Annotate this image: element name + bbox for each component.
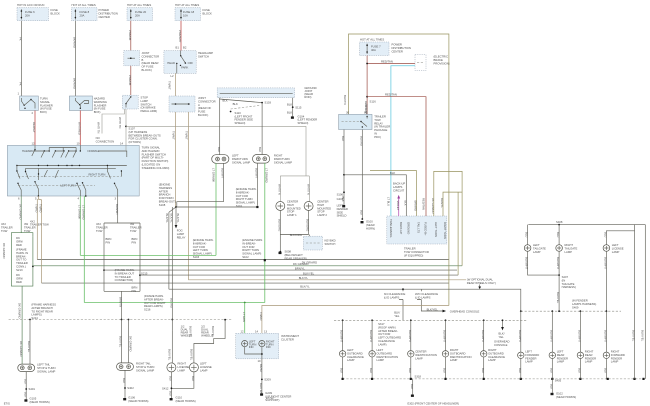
- right license lamp: [167, 363, 176, 372]
- svg-text:PIN: PIN: [132, 289, 137, 293]
- svg-text:LAMP: LAMP: [585, 360, 593, 364]
- svg-text:IDENTIFICATION: IDENTIFICATION: [415, 353, 437, 357]
- wire tap c1: [342, 320, 344, 350]
- wire tap f4: [605, 311, 607, 352]
- label G104 LEFT FENDER SHIELD: [298, 115, 318, 125]
- svg-text:SWITCH: SWITCH: [141, 102, 152, 106]
- wire left license L feed: [194, 320, 225, 363]
- node S108: [175, 206, 177, 208]
- label S008 BELOW LEFT REAR SPEAKER: [285, 250, 307, 261]
- label RIGHT OUTBOARD CLEARANCE LAMP: [488, 348, 505, 362]
- svg-text:RIGHT TURN: RIGHT TURN: [236, 197, 253, 201]
- svg-text:STOP: STOP: [287, 210, 295, 214]
- label LT GRN/BK pinlabels: [77, 205, 85, 220]
- switch internal top stubs: [49, 148, 76, 152]
- svg-text:IND: IND: [266, 345, 271, 349]
- svg-text:S107: S107: [129, 127, 136, 131]
- label BLK YEL oc2: [499, 332, 505, 339]
- svg-text:FORWARD: FORWARD: [525, 353, 539, 357]
- svg-text:FUSE 18: FUSE 18: [183, 10, 195, 14]
- svg-text:PEDAL ARM): PEDAL ARM): [141, 109, 158, 113]
- dashed frame harness line left: [9, 319, 232, 321]
- svg-text:LAMP: LAMP: [347, 358, 355, 362]
- node S412: [171, 387, 173, 389]
- svg-text:FUSE 7: FUSE 7: [371, 45, 381, 49]
- svg-text:LAMP: LAMP: [488, 358, 496, 362]
- svg-text:CLEARANCE: CLEARANCE: [347, 355, 364, 359]
- label BACK-UP LAMPS CIRCUIT: [393, 182, 405, 193]
- lamp LEFT FORWARD FENDER: [518, 352, 524, 358]
- svg-text:RELAY: RELAY: [177, 235, 186, 239]
- wire tap c5: [483, 320, 485, 350]
- wire band right BLK down to right park lamp: [261, 103, 263, 155]
- ground G106: [123, 398, 126, 400]
- svg-text:B: B: [142, 58, 144, 62]
- label RIGHT PARK TURN SIGNAL LAMP: [274, 154, 292, 165]
- wire olive perimeter top: [349, 34, 449, 306]
- svg-text:14: 14: [120, 142, 124, 146]
- wire license ground down: [605, 251, 607, 311]
- wire green cluster drop: [244, 303, 246, 334]
- svg-text:SHIELD): SHIELD): [235, 121, 246, 125]
- node oc2: [502, 319, 504, 321]
- ground joint band: [217, 88, 294, 98]
- wire green G2 horizontal to cluster: [84, 302, 264, 304]
- svg-text:BLK/: BLK/: [394, 311, 400, 315]
- power distribution center box F8: [72, 8, 98, 21]
- svg-text:TURN: TURN: [40, 97, 48, 101]
- svg-text:S409: S409: [572, 305, 579, 309]
- ground G104: [291, 116, 294, 118]
- svg-text:(ENGINE: (ENGINE: [159, 183, 171, 187]
- svg-text:KEYBKD: KEYBKD: [325, 239, 336, 243]
- label G105 NEAR HORNS: [30, 397, 50, 404]
- label G107 NEAR HORNS: [176, 396, 196, 403]
- trailer tow relay box: [339, 114, 372, 129]
- svg-text:(NEAR HORNS): (NEAR HORNS): [30, 400, 50, 404]
- label ENGINE HARN BREAK OUT RIGHT TURN b: [242, 238, 263, 259]
- svg-text:OUT FOR: OUT FOR: [236, 194, 248, 198]
- label KEYLESS SWITCH: [325, 239, 336, 246]
- lamp RIGHT OUTBOARD CLEARANCE: [481, 351, 487, 357]
- label TRAILER TOW CONNECTOR: [404, 247, 429, 258]
- svg-text:CONNECTOR: CONNECTOR: [198, 99, 216, 103]
- turn signal and hazard switch box: [7, 145, 139, 196]
- svg-text:STOP & TURN: STOP & TURN: [37, 366, 55, 370]
- svg-text:OUT TO: OUT TO: [16, 258, 26, 262]
- svg-text:LAMP: LAMP: [377, 358, 385, 362]
- svg-text:RIGHT: RIGHT: [178, 362, 187, 366]
- wire overhead console 1: [421, 301, 442, 311]
- svg-text:S116: S116: [370, 100, 377, 104]
- svg-text:CLEARANCE: CLEARANCE: [378, 339, 395, 343]
- label STOP LAMP SWITCH: [141, 96, 158, 114]
- svg-text:HOT AT ALL TIMES: HOT AT ALL TIMES: [175, 3, 199, 7]
- wire left turn riser olive: [434, 171, 462, 265]
- wire tap c2: [371, 320, 373, 350]
- label frame harn breakout right: [115, 268, 135, 282]
- wire JCA out2 TN down: [189, 112, 466, 280]
- svg-text:(NEAR HORNS): (NEAR HORNS): [556, 395, 576, 399]
- svg-text:(FRAME HARNESS: (FRAME HARNESS: [31, 303, 56, 307]
- wire S407 down BLK/YEL: [558, 275, 560, 311]
- svg-text:(REAR OF: (REAR OF: [198, 106, 211, 110]
- svg-text:PROVISION): PROVISION): [434, 61, 450, 65]
- svg-text:AFTER BREAK-: AFTER BREAK-: [378, 329, 398, 333]
- svg-text:LAMP 2: LAMP 2: [317, 213, 327, 217]
- svg-text:(ENGINE HARN.: (ENGINE HARN.: [236, 187, 257, 191]
- node S401: [25, 388, 27, 390]
- wire right bracket split: [104, 221, 140, 291]
- svg-text:AND HAZARD: AND HAZARD: [142, 149, 160, 153]
- svg-text:LAMP: LAMP: [612, 250, 620, 254]
- label FRAME HARNESS AFTER BRANCH S214: [31, 303, 56, 321]
- svg-text:(ROOF HARN.: (ROOF HARN.: [378, 325, 396, 329]
- right turn indicator: [259, 341, 265, 347]
- left license lamp right section: [603, 225, 634, 252]
- label 4x2 TRAILER TOW right: [96, 222, 108, 233]
- node S116: [366, 96, 368, 98]
- wire BLK/YEL left tail drop: [29, 320, 31, 365]
- svg-text:OUTBOARD: OUTBOARD: [488, 351, 504, 355]
- svg-text:(ON BRAKE: (ON BRAKE: [141, 106, 156, 110]
- label LEFT REAR FENDER LAMP: [557, 350, 568, 364]
- svg-text:FORWARD: FORWARD: [611, 353, 625, 357]
- label 4x2 TRAILER TOW left: [1, 222, 13, 233]
- svg-text:LEFT: LEFT: [232, 154, 239, 158]
- fender lamp group 3: [577, 311, 596, 379]
- svg-text:DISTRIBUTION: DISTRIBUTION: [99, 11, 118, 15]
- svg-text:LAMP: LAMP: [450, 358, 458, 362]
- label JOINT CONNECTOR A: [198, 96, 216, 117]
- wire keyless stub: [308, 235, 310, 237]
- svg-text:S102: S102: [242, 255, 249, 259]
- svg-text:20A: 20A: [25, 14, 30, 18]
- label RIGHT TAILGATE LAMP: [565, 243, 578, 254]
- svg-text:BLK/YL: BLK/YL: [300, 285, 310, 289]
- left turn indicator: [242, 341, 248, 347]
- label W OPTIONAL DUAL REAR WHEELS ONLY: [467, 278, 496, 285]
- node S107: [125, 126, 127, 128]
- svg-text:LAMP: LAMP: [177, 232, 185, 236]
- wire gnd f2: [551, 359, 553, 379]
- wire tap f1: [520, 311, 522, 352]
- svg-text:WARNING: WARNING: [94, 100, 107, 104]
- svg-text:SIGNAL LAMP: SIGNAL LAMP: [274, 160, 292, 164]
- svg-text:FUSE: FUSE: [198, 110, 206, 114]
- wire relay ground BLK down: [343, 130, 345, 206]
- label JOINT CONNECTOR B: [142, 51, 160, 72]
- svg-text:(UP HARNESS: (UP HARNESS: [129, 130, 148, 134]
- wire cyan LT BLU from brake line down: [391, 66, 415, 216]
- label ELECTRIC BRAKE PROVISION: [434, 55, 450, 66]
- fuse block box F18: [175, 8, 201, 21]
- wire fender feed bus y311: [521, 310, 621, 312]
- svg-text:BOX): BOX): [94, 110, 101, 114]
- svg-text:RED/TAN: RED/TAN: [385, 93, 397, 97]
- wire right tail drops: [122, 320, 129, 363]
- svg-text:S103: S103: [193, 255, 200, 259]
- svg-text:(NEAR: (NEAR: [366, 223, 375, 227]
- label 1/2 DUAL REAR WHEELS: [181, 325, 193, 338]
- wire tailgate lamp grounds: [528, 251, 560, 275]
- wire BLK/YEL clearance feed: [402, 301, 404, 320]
- node H270 tap: [103, 269, 105, 271]
- svg-text:PIN: PIN: [132, 240, 137, 244]
- svg-text:PACKAGE: PACKAGE: [374, 128, 387, 132]
- svg-text:S103: S103: [265, 101, 272, 105]
- svg-text:TOW: TOW: [96, 229, 103, 233]
- svg-text:SIGNAL LAMP: SIGNAL LAMP: [136, 368, 154, 372]
- svg-text:HOT AT ALL TIMES: HOT AT ALL TIMES: [127, 3, 151, 7]
- node S408: [558, 224, 560, 226]
- svg-text:(IN FUSE: (IN FUSE: [94, 107, 106, 111]
- node left license dashed tap: [224, 319, 226, 321]
- label RIGHT OUTBOARD IDENTIFICATION LAMP: [450, 348, 472, 362]
- svg-text:RIGHT: RIGHT: [450, 348, 459, 352]
- node license on dashed line: [171, 319, 173, 321]
- svg-text:& ID LAMPS: & ID LAMPS: [384, 295, 400, 299]
- wire fog relay stub: [175, 207, 177, 225]
- svg-text:AFTER BREAK-: AFTER BREAK-: [144, 297, 164, 301]
- label 4x2 4W trailer tow mid: [30, 220, 49, 227]
- svg-text:IN-BREAK-: IN-BREAK-: [193, 241, 207, 245]
- svg-text:TAILGATE: TAILGATE: [533, 246, 546, 250]
- turn signal flasher box: [20, 96, 39, 111]
- svg-text:CENTER: CENTER: [99, 15, 110, 19]
- svg-text:LEFT: LEFT: [347, 348, 354, 352]
- wire gnd c4: [445, 357, 447, 379]
- node S407: [558, 274, 560, 276]
- svg-text:RELAY: RELAY: [374, 121, 383, 125]
- ground G100: [361, 218, 364, 223]
- svg-text:LICENSE: LICENSE: [200, 365, 212, 369]
- wire tap c4: [445, 320, 447, 350]
- wire fuse6 to turn flasher PK: [20, 21, 22, 96]
- wire WHT/TN horizontal to CHMSL: [126, 126, 306, 175]
- wire H289 riser: [168, 212, 170, 289]
- label S106: [337, 193, 344, 197]
- lamp RIGHT OUTBOARD IDENTIFICATION: [442, 351, 448, 357]
- svg-text:BRN: BRN: [106, 237, 112, 241]
- svg-text:FUSE 20: FUSE 20: [135, 10, 147, 14]
- svg-text:LAMP: LAMP: [415, 356, 423, 360]
- svg-text:(IN FUSE: (IN FUSE: [40, 107, 52, 111]
- label LEFT TAILGATE LAMP: [533, 243, 546, 254]
- svg-text:BETWEEN BREAK-OUTS: BETWEEN BREAK-OUTS: [129, 133, 161, 137]
- svg-text:CENTER: CENTER: [287, 200, 298, 204]
- wire right park lamp green LT GRN/RD down: [264, 163, 266, 302]
- wire tap c3: [410, 320, 412, 350]
- svg-text:IN: IN: [374, 132, 377, 136]
- wire gnd f3: [579, 359, 581, 379]
- svg-text:TOW CONNECTOR: TOW CONNECTOR: [404, 250, 429, 254]
- wire gnd c3: [410, 357, 412, 379]
- wire band right end down: [292, 98, 294, 117]
- svg-text:SHIELD): SHIELD): [298, 121, 309, 125]
- wire gnd c5: [483, 357, 485, 379]
- svg-text:OF FUSE: OF FUSE: [142, 65, 154, 69]
- wire ground drop S405: [551, 379, 553, 393]
- label G100 NEAR HORN: [366, 220, 375, 231]
- wire split left branch down: [11, 236, 33, 286]
- wire bigbox pin3 WHT/TN down: [117, 196, 119, 221]
- wire stop lamp into big box: [125, 145, 127, 151]
- svg-text:BREAK-OUT): BREAK-OUT): [159, 200, 176, 204]
- label LEFT PARK TURN SIGNAL LAMP: [232, 154, 250, 165]
- svg-text:BLK: BLK: [287, 102, 292, 106]
- svg-text:CENTER: CENTER: [392, 49, 403, 53]
- svg-text:HIGH: HIGH: [317, 203, 324, 207]
- svg-text:HOT IN ACC OR RUN: HOT IN ACC OR RUN: [17, 3, 44, 7]
- instrument cluster box: [236, 333, 279, 359]
- svg-text:OUTBOARD: OUTBOARD: [377, 351, 393, 355]
- svg-text:LAMP): LAMP): [378, 342, 386, 346]
- svg-text:(PART OF MULTI-: (PART OF MULTI-: [142, 156, 164, 160]
- svg-text:SIGNAL LAMP): SIGNAL LAMP): [242, 252, 261, 256]
- arrow dual rear wheels note: [478, 285, 481, 290]
- svg-text:STOP: STOP: [141, 96, 149, 100]
- svg-text:30: 30: [346, 111, 350, 115]
- svg-text:PDC): PDC): [374, 135, 381, 139]
- label W/O CLEARANCE ID LAMPS: [415, 292, 438, 299]
- svg-text:40A: 40A: [371, 48, 376, 52]
- label FOG LAMP RELAY: [177, 229, 186, 240]
- svg-text:G110: G110: [176, 396, 183, 400]
- switch internal rail B: [16, 165, 127, 169]
- svg-text:SWITCH: SWITCH: [198, 54, 209, 58]
- svg-text:CLUSTER: CLUSTER: [281, 337, 294, 341]
- svg-text:HIGH: HIGH: [287, 203, 294, 207]
- svg-text:CONSOLE: CONSOLE: [494, 343, 508, 347]
- wire left lamp feed DK GRN/RD down: [21, 286, 23, 364]
- svg-text:DK: DK: [16, 273, 20, 277]
- svg-text:TRAILER TOW: TRAILER TOW: [30, 223, 49, 227]
- svg-text:HEADLAMP: HEADLAMP: [198, 51, 213, 55]
- svg-text:TRAILER: TRAILER: [96, 225, 108, 229]
- svg-text:(IF EQUIPPED): (IF EQUIPPED): [404, 253, 423, 257]
- wire band left BLK down to left park lamp: [219, 98, 221, 155]
- svg-text:FENDER: FENDER: [585, 356, 596, 360]
- label LEFT LICENSE LAMP: [200, 362, 212, 373]
- joint connector B box: [124, 51, 140, 66]
- CHMSL bracket feed: [280, 176, 309, 202]
- svg-text:LAMP: LAMP: [200, 368, 208, 372]
- svg-text:LEFT TAIL: LEFT TAIL: [37, 363, 50, 367]
- label 2/2 DUAL REAR WHEELS: [201, 325, 213, 338]
- svg-text:LEFT: LEFT: [377, 348, 384, 352]
- svg-text:RIGHT TAIL: RIGHT TAIL: [136, 362, 151, 366]
- svg-text:TAILGATE: TAILGATE: [565, 246, 578, 250]
- svg-text:IDENTIFICATION: IDENTIFICATION: [377, 355, 399, 359]
- svg-text:TOW: TOW: [1, 229, 8, 233]
- svg-text:OVERHEAD CONSOLE: OVERHEAD CONSOLE: [450, 310, 480, 314]
- wire gnd c1: [342, 357, 344, 379]
- svg-text:LEFT: LEFT: [557, 350, 564, 354]
- svg-text:OFF: OFF: [188, 61, 194, 65]
- label G102 NEAR HORNS: [556, 392, 576, 399]
- svg-text:LEFT: LEFT: [612, 243, 619, 247]
- switch internal dashed row2: [18, 185, 95, 187]
- label TRAILER TOW RELAY: [374, 115, 390, 139]
- wire RED/TAN horizontal to trailer fused B+: [367, 97, 426, 216]
- svg-text:DK GRN/RD: DK GRN/RD: [302, 261, 317, 265]
- wire H BRN y270: [104, 269, 457, 271]
- switch contact blades row1: [32, 145, 81, 157]
- switch bottom edge nodes: [38, 195, 87, 197]
- svg-text:LEFT OUTBOARD: LEFT OUTBOARD: [378, 336, 401, 340]
- svg-text:S209: S209: [264, 377, 271, 381]
- svg-text:YEL: YEL: [499, 335, 505, 339]
- svg-text:AFTER: AFTER: [159, 189, 168, 193]
- svg-text:POWER: POWER: [99, 8, 109, 12]
- svg-text:YEL: YEL: [394, 314, 400, 318]
- fuse element F18: [180, 9, 182, 19]
- svg-text:S401: S401: [29, 387, 36, 391]
- wire left park lamp green LT GRN/BK: [215, 163, 217, 255]
- svg-text:14: 14: [255, 329, 259, 333]
- svg-text:(IN TRAILER: (IN TRAILER: [374, 125, 390, 129]
- svg-text:TOW: TOW: [24, 229, 31, 233]
- svg-text:G103: G103: [337, 197, 344, 201]
- svg-text:S317: S317: [378, 322, 385, 326]
- svg-text:S412: S412: [162, 387, 169, 391]
- node S213: [32, 266, 34, 268]
- wire license grounds: [171, 372, 194, 398]
- label GROUND JOINT: [304, 86, 316, 99]
- svg-text:FLASHER SWITCH: FLASHER SWITCH: [142, 152, 166, 156]
- svg-text:(NEAR HORNS): (NEAR HORNS): [128, 399, 148, 403]
- svg-text:FUSE: FUSE: [203, 8, 211, 12]
- label CENTER HIGH MOUNTED STOP LAMP 1: [287, 200, 301, 218]
- switch contact blades row3: [17, 165, 122, 196]
- wire tap f2: [551, 311, 553, 352]
- svg-text:4W: 4W: [24, 222, 29, 226]
- label TURN SIGNAL AND HAZARD FLASHER SWITCH: [142, 146, 170, 170]
- svg-text:CENTER: CENTER: [317, 200, 328, 204]
- svg-text:HARNESS): HARNESS): [562, 285, 576, 289]
- svg-text:STEERING COLUMN): STEERING COLUMN): [142, 166, 170, 170]
- label BRN pinb: [132, 237, 138, 244]
- svg-text:TOW: TOW: [374, 118, 381, 122]
- svg-text:CONNECTION: CONNECTION: [96, 139, 115, 143]
- switch wire normal to right: [99, 151, 127, 157]
- svg-text:RIGHT: RIGHT: [274, 154, 283, 158]
- label CENTER IDENTIFICATION LAMP: [415, 350, 437, 361]
- label BLK YEL feed: [394, 311, 400, 318]
- lamp CENTER IDENTIFICATION: [408, 351, 414, 357]
- svg-text:FLASHER: FLASHER: [40, 103, 53, 107]
- svg-text:BREAK-: BREAK-: [16, 254, 26, 258]
- wire CHMSL ground drop: [279, 235, 281, 252]
- svg-text:W/O CLEARANCE: W/O CLEARANCE: [415, 292, 438, 296]
- wire hazard flasher out WHT/RED: [79, 111, 81, 146]
- svg-text:RIGHT: RIGHT: [565, 243, 574, 247]
- svg-text:LEFT: LEFT: [525, 350, 532, 354]
- svg-text:ET/S: ET/S: [4, 402, 10, 406]
- label S317 ROOF HARN: [378, 322, 401, 346]
- wire TN/RD a down to H259: [36, 225, 38, 260]
- label LEFT OUTBOARD CLEARANCE LAMP: [347, 348, 364, 362]
- svg-text:B2: B2: [183, 46, 187, 50]
- lamp RIGHT FORWARD FENDER: [603, 352, 609, 358]
- fender lamp group 1: [518, 311, 540, 379]
- node S103: [261, 102, 263, 104]
- svg-text:G302 (FRONT CENTER OF HEADLIN: G302 (FRONT CENTER OF HEADLINER): [407, 402, 459, 406]
- svg-text:RIGHT: RIGHT: [611, 350, 620, 354]
- label S107 UP HARNESS: [129, 127, 161, 145]
- svg-text:OUTBOARD: OUTBOARD: [450, 351, 466, 355]
